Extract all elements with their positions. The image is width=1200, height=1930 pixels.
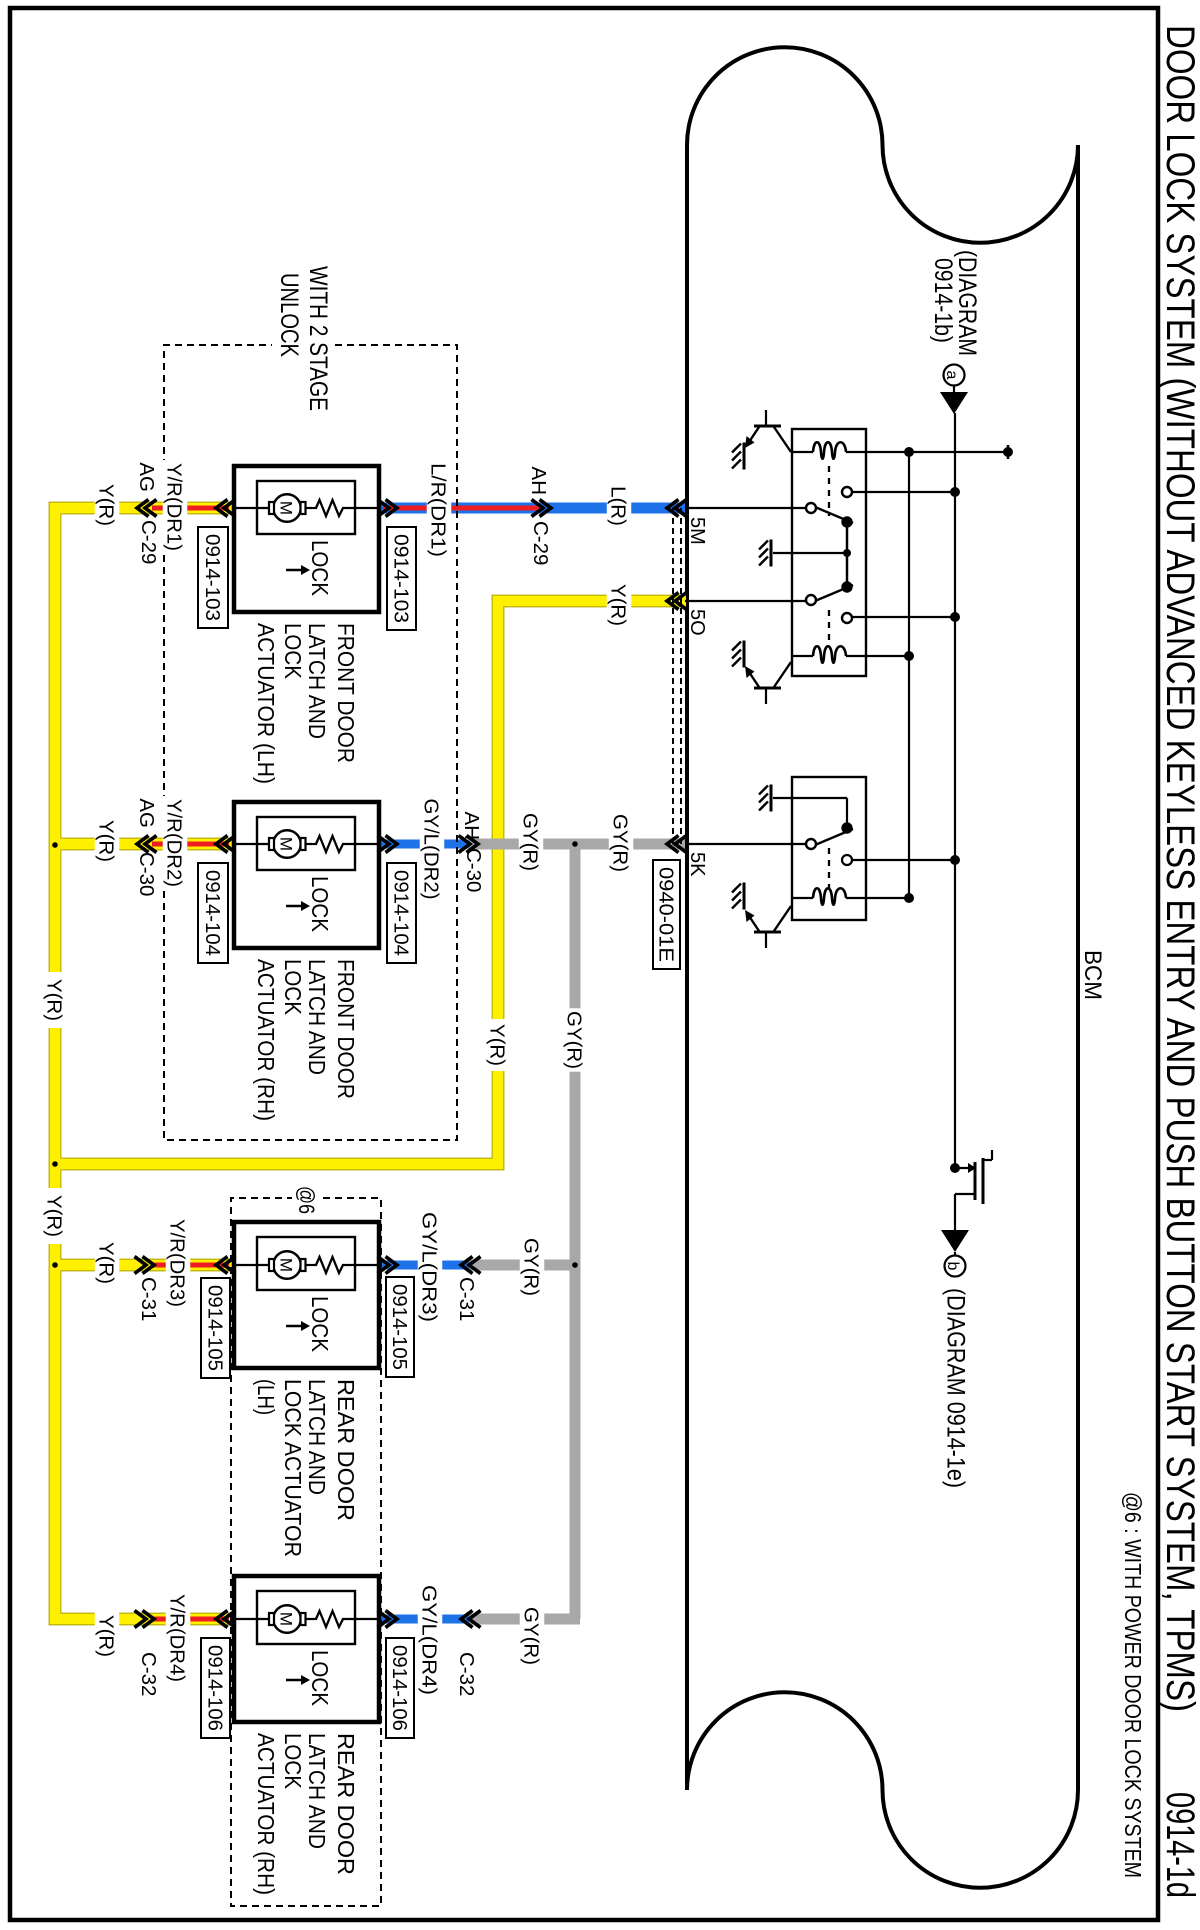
svg-text:GY(R): GY(R) bbox=[609, 814, 632, 872]
svg-text:M: M bbox=[277, 1612, 296, 1626]
svg-text:Y(R): Y(R) bbox=[95, 820, 118, 862]
svg-text:5K: 5K bbox=[686, 852, 708, 877]
svg-text:Y(R): Y(R) bbox=[95, 1242, 118, 1284]
svg-text:(LH): (LH) bbox=[253, 1379, 279, 1415]
svg-text:LOCK: LOCK bbox=[307, 876, 333, 933]
svg-text:0914-106: 0914-106 bbox=[388, 1645, 410, 1731]
svg-text:Y(R): Y(R) bbox=[486, 1024, 509, 1066]
svg-text:L(R): L(R) bbox=[607, 486, 630, 526]
svg-text:FRONT DOOR: FRONT DOOR bbox=[333, 959, 359, 1099]
svg-text:0914-105: 0914-105 bbox=[203, 1285, 225, 1371]
svg-text:LOCK: LOCK bbox=[307, 1296, 333, 1353]
svg-text:GY(R): GY(R) bbox=[519, 813, 542, 871]
svg-text:GY(R): GY(R) bbox=[563, 1011, 586, 1069]
svg-text:LATCH AND: LATCH AND bbox=[304, 1733, 330, 1849]
svg-text:0914-105: 0914-105 bbox=[388, 1284, 410, 1370]
svg-text:FRONT DOOR: FRONT DOOR bbox=[333, 623, 359, 763]
svg-text:5O: 5O bbox=[686, 609, 708, 636]
svg-text:LATCH AND: LATCH AND bbox=[304, 959, 330, 1075]
svg-text:ACTUATOR (RH): ACTUATOR (RH) bbox=[253, 1733, 279, 1895]
svg-text:GY/L(DR2): GY/L(DR2) bbox=[420, 799, 443, 900]
svg-text:C-31: C-31 bbox=[137, 1277, 160, 1321]
svg-text:Y/R(DR1): Y/R(DR1) bbox=[163, 463, 186, 551]
svg-text:LATCH AND: LATCH AND bbox=[304, 1379, 330, 1495]
svg-text:b: b bbox=[944, 1262, 961, 1271]
svg-text:Y/R(DR3): Y/R(DR3) bbox=[166, 1219, 189, 1307]
svg-text:LOCK: LOCK bbox=[280, 959, 306, 1016]
svg-text:C-32: C-32 bbox=[455, 1652, 478, 1696]
svg-text:Y(R): Y(R) bbox=[607, 584, 630, 626]
svg-text:DOOR LOCK SYSTEM (WITHOUT ADVA: DOOR LOCK SYSTEM (WITHOUT ADVANCED KEYLE… bbox=[1158, 25, 1200, 1712]
svg-text:C-32: C-32 bbox=[137, 1652, 160, 1696]
svg-text:Y(R): Y(R) bbox=[43, 979, 66, 1021]
svg-text:C-30: C-30 bbox=[135, 852, 158, 896]
svg-text:WITH 2 STAGE: WITH 2 STAGE bbox=[304, 266, 332, 411]
svg-text:LOCK: LOCK bbox=[280, 623, 306, 680]
svg-text:LATCH AND: LATCH AND bbox=[304, 623, 330, 739]
svg-text:AH: AH bbox=[527, 467, 550, 495]
svg-text:Y/R(DR4): Y/R(DR4) bbox=[166, 1594, 189, 1682]
svg-text:C-30: C-30 bbox=[462, 848, 485, 892]
svg-text:0914-104: 0914-104 bbox=[389, 870, 411, 956]
svg-text:C-29: C-29 bbox=[529, 521, 552, 565]
svg-text:a: a bbox=[943, 371, 960, 380]
svg-text:C-31: C-31 bbox=[455, 1277, 478, 1321]
svg-text:0914-103: 0914-103 bbox=[389, 534, 411, 623]
svg-text:0914-104: 0914-104 bbox=[201, 870, 223, 956]
svg-text:LOCK: LOCK bbox=[307, 1650, 333, 1707]
svg-text:UNLOCK: UNLOCK bbox=[275, 273, 303, 357]
svg-text:0914-103: 0914-103 bbox=[201, 534, 223, 621]
svg-text:0914-1d: 0914-1d bbox=[1158, 1792, 1200, 1898]
svg-text:AG: AG bbox=[135, 462, 158, 492]
svg-text:BCM: BCM bbox=[1079, 950, 1106, 1000]
svg-text:REAR DOOR: REAR DOOR bbox=[333, 1733, 359, 1875]
svg-text:Y(R): Y(R) bbox=[95, 484, 118, 526]
svg-text:Y(R): Y(R) bbox=[43, 1195, 66, 1237]
svg-text:GY(R): GY(R) bbox=[520, 1238, 543, 1296]
svg-text:AH: AH bbox=[460, 812, 483, 840]
svg-text:REAR DOOR: REAR DOOR bbox=[333, 1379, 359, 1521]
svg-text:@6 : WITH POWER DOOR LOCK SYST: @6 : WITH POWER DOOR LOCK SYSTEM bbox=[1120, 1492, 1146, 1878]
svg-text:LOCK: LOCK bbox=[280, 1733, 306, 1790]
svg-text:@6: @6 bbox=[294, 1186, 319, 1214]
svg-text:Y/R(DR2): Y/R(DR2) bbox=[163, 799, 186, 887]
svg-text:M: M bbox=[277, 501, 296, 515]
svg-text:M: M bbox=[277, 1258, 296, 1272]
svg-text:0914-1b): 0914-1b) bbox=[929, 258, 957, 343]
svg-text:LOCK ACTUATOR: LOCK ACTUATOR bbox=[280, 1379, 306, 1557]
svg-text:ACTUATOR (LH): ACTUATOR (LH) bbox=[253, 623, 279, 784]
svg-text:AG: AG bbox=[135, 798, 158, 828]
svg-text:L/R(DR1): L/R(DR1) bbox=[427, 463, 450, 557]
svg-text:(DIAGRAM 0914-1e): (DIAGRAM 0914-1e) bbox=[942, 1288, 970, 1488]
svg-text:0914-106: 0914-106 bbox=[203, 1645, 225, 1731]
svg-text:Y(R): Y(R) bbox=[95, 1615, 118, 1657]
svg-text:GY(R): GY(R) bbox=[520, 1607, 543, 1665]
svg-text:GY/L(DR4): GY/L(DR4) bbox=[418, 1585, 441, 1695]
svg-text:ACTUATOR (RH): ACTUATOR (RH) bbox=[253, 959, 279, 1121]
svg-text:GY/L(DR3): GY/L(DR3) bbox=[418, 1212, 441, 1322]
svg-text:LOCK: LOCK bbox=[307, 540, 333, 597]
svg-text:0940-01E: 0940-01E bbox=[654, 867, 676, 962]
svg-text:C-29: C-29 bbox=[137, 520, 160, 564]
svg-text:5M: 5M bbox=[686, 517, 708, 545]
svg-text:M: M bbox=[277, 837, 296, 851]
